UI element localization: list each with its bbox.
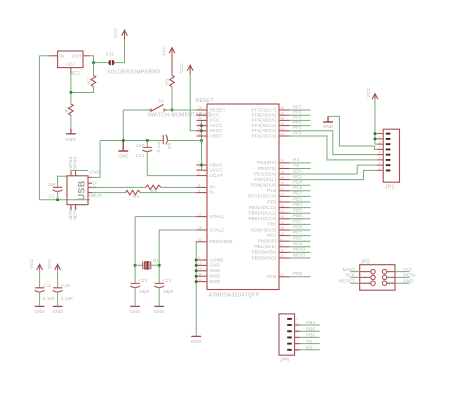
vcc arrow above C10: [55, 264, 61, 270]
svg-text:JP2: JP2: [361, 260, 371, 266]
svg-text:IC1: IC1: [72, 71, 81, 77]
wire C3 to VCC vertical: [168, 140, 202, 142]
svg-text:GND: GND: [403, 278, 414, 283]
IC pin 3 D+: [197, 186, 208, 188]
svg-text:XTAL1: XTAL1: [210, 214, 225, 219]
svg-text:6: 6: [389, 282, 391, 286]
svg-text:C12: C12: [163, 278, 172, 283]
svg-text:8: 8: [281, 237, 283, 241]
node junction at C1 bottom: [56, 198, 59, 201]
svg-text:22: 22: [281, 273, 285, 277]
wire net PB4: [290, 207, 311, 209]
svg-text:PB6: PB6: [293, 213, 302, 218]
wire net PD5: [290, 276, 311, 278]
IC pin 33 PE2/!HWB: [197, 241, 208, 243]
svg-text:PB6(ADC13): PB6(ADC13): [248, 216, 276, 221]
IC pin 1 PE6 net PE6: [279, 201, 290, 203]
svg-text:PB7: PB7: [293, 219, 302, 224]
capacitor C11 plates: [35, 288, 45, 292]
svg-text:PB3(MISO): PB3(MISO): [252, 255, 277, 260]
svg-text:PC7: PC7: [293, 230, 303, 235]
svg-text:SCL: SCL: [293, 174, 303, 179]
svg-text:26: 26: [281, 226, 285, 230]
IC pin 10 PB2(MOSI) net MOSI: [279, 251, 290, 253]
ground symbol C10: [53, 305, 63, 307]
gnd line above USB: [100, 140, 163, 142]
svg-text:MOSI: MOSI: [403, 273, 415, 278]
crystal wires XTAL2: [159, 230, 196, 283]
svg-text:9: 9: [281, 243, 283, 247]
IC pin 42 AREF: [197, 135, 208, 137]
svg-text:XTAL2: XTAL2: [210, 227, 225, 232]
svg-text:8: 8: [379, 167, 381, 171]
svg-text:VCC: VCC: [403, 267, 414, 272]
svg-text:MISO: MISO: [293, 252, 306, 257]
IC pin 34 VCC: [197, 119, 208, 121]
capacitor C10 plates: [53, 288, 63, 292]
svg-text:SOLDERJUMPERNO: SOLDERJUMPERNO: [107, 70, 161, 76]
svg-text:SCK: SCK: [293, 241, 304, 246]
svg-text:36: 36: [281, 106, 285, 110]
JP1 pins 1-8: [377, 130, 390, 171]
resistor R1 lead bottom: [70, 115, 72, 128]
svg-text:RX: RX: [306, 345, 313, 350]
JP2 right wires: [395, 272, 410, 284]
svg-text:0.1uF: 0.1uF: [61, 296, 74, 301]
ground symbol C11: [35, 305, 45, 307]
svg-text:MTN4: MTN4: [72, 156, 77, 169]
wire PE2 to GND rail: [195, 242, 197, 336]
resistor R4: [126, 190, 141, 195]
svg-text:MTN2: MTN2: [72, 206, 77, 219]
wire SDA to JP1 pin7: [290, 165, 378, 174]
wire OUT to corner: [90, 56, 108, 63]
resistor R1 lead top: [70, 93, 72, 105]
IC pin 7 VBUS: [197, 164, 208, 166]
wire ADJ down to junction: [70, 74, 72, 93]
wire VCC down to AVCC row: [190, 74, 201, 130]
node junction JP1 pin2: [374, 137, 377, 140]
IC pin 37 PF6(ADC6) net PF6: [279, 114, 290, 116]
wire VCC to R3: [171, 57, 173, 75]
svg-text:PD7(ADC10): PD7(ADC10): [248, 194, 277, 199]
wire net PD4: [290, 184, 311, 186]
node junction Q1 left: [134, 264, 137, 267]
voltage regulator IC1 body: [58, 51, 83, 68]
capacitor C1 leads: [58, 176, 67, 200]
resistor R2 lead top: [93, 63, 95, 76]
node junctions UGND GND pins: [195, 259, 198, 262]
svg-text:2: 2: [379, 135, 381, 139]
ground symbol below IC: [191, 335, 201, 337]
IC pin 9 PB1(SCK) net SCK: [279, 246, 290, 248]
svg-text:4: 4: [389, 276, 391, 280]
IC pin 22 PD5 net PD5: [279, 276, 290, 278]
svg-text:3: 3: [379, 141, 381, 145]
svg-text:VCC: VCC: [47, 258, 52, 269]
svg-text:3: 3: [198, 184, 200, 188]
svg-text:1: 1: [364, 270, 366, 274]
capacitor C1 plates: [53, 187, 63, 191]
wire shield tie to GND label: [71, 170, 88, 172]
capacitor C10 lead top: [57, 270, 59, 288]
svg-text:C9: C9: [167, 143, 172, 149]
svg-text:4: 4: [198, 189, 200, 193]
svg-text:15: 15: [198, 262, 202, 266]
svg-text:PB4: PB4: [306, 320, 315, 325]
svg-text:AREF: AREF: [210, 133, 223, 138]
vcc arrow top-left: [122, 30, 128, 39]
wire USB GND pin riser: [92, 141, 100, 178]
wire SCL to JP1 pin8: [290, 170, 378, 179]
wire net PB7: [290, 223, 311, 225]
wire net PB5: [290, 212, 311, 214]
node junction R3 reset line: [171, 109, 174, 112]
svg-text:30: 30: [281, 215, 285, 219]
wire PF1 to JP1 pin5: [290, 131, 378, 155]
svg-text:10: 10: [281, 249, 285, 253]
svg-text:PB4: PB4: [293, 202, 302, 207]
svg-text:6: 6: [379, 156, 381, 160]
IC pin 17 XTAL1: [197, 216, 208, 218]
JP2 pads: [360, 269, 395, 285]
svg-text:C14: C14: [136, 153, 145, 158]
capacitor C12 lead bottom: [158, 288, 160, 306]
svg-text:24: 24: [198, 122, 202, 126]
wire net PD6: [290, 229, 311, 231]
IC pin 23 GND: [197, 270, 208, 272]
svg-text:0.1uF: 0.1uF: [43, 296, 56, 301]
capacitor C14 lead bottom to UCAP line: [147, 152, 196, 176]
wire net PD7: [290, 195, 311, 197]
IC pin 4 D-: [197, 192, 208, 194]
node junction ADJ / R1: [69, 91, 72, 94]
IC1 OUT pin stub: [83, 55, 90, 57]
svg-text:PE6: PE6: [267, 199, 276, 204]
node junction VBUS: [200, 164, 203, 167]
svg-text:VBUS: VBUS: [89, 193, 102, 198]
ground symbol below R1: [66, 129, 76, 134]
IC pin 31 PC6 net PC6: [279, 190, 290, 192]
wire net PC6: [290, 190, 311, 192]
wire from IN pin to left vertical: [39, 55, 49, 57]
vcc arrow above R3: [169, 48, 175, 57]
connector JP1 body: [383, 129, 399, 182]
svg-text:PB0(SS): PB0(SS): [258, 239, 277, 244]
svg-text:SJ1: SJ1: [106, 52, 115, 57]
crystal wires XTAL1: [135, 217, 196, 283]
svg-text:4: 4: [379, 146, 381, 150]
svg-text:1uF: 1uF: [136, 143, 144, 148]
IC pin 41 PF0(ADC0) net PF0: [279, 135, 290, 137]
svg-text:JP1: JP1: [385, 185, 395, 191]
vcc arrow above C11: [37, 264, 43, 270]
JP5 pads: [287, 317, 298, 352]
IC pin 18 PD0(SCL) net SCL: [279, 179, 290, 181]
USB shield pin stubs bottom: [71, 205, 76, 210]
svg-text:1: 1: [379, 130, 381, 134]
resistor R2: [91, 75, 96, 86]
ground symbol C13: [130, 305, 140, 307]
svg-text:GND: GND: [52, 309, 63, 314]
IC pin 30 PB6(ADC13) net PB6: [279, 218, 290, 220]
IC pin 44 AVCC: [197, 130, 208, 132]
IC pin 35 GND: [197, 275, 208, 277]
node junction Q1 right: [158, 264, 161, 267]
svg-text:ADJ: ADJ: [66, 62, 75, 67]
svg-text:R1: R1: [64, 106, 69, 112]
svg-text:RESET: RESET: [339, 278, 355, 283]
svg-text:20: 20: [281, 159, 285, 163]
capacitor C12 plates: [154, 283, 164, 287]
resistor R3: [170, 75, 175, 86]
resistor R2 lead bottom and wire to ADJ: [71, 87, 94, 93]
svg-text:R2: R2: [87, 78, 92, 84]
svg-text:PD2(RX): PD2(RX): [257, 160, 277, 165]
svg-text:GND: GND: [210, 268, 221, 273]
svg-text:1uF: 1uF: [48, 182, 56, 187]
wire net TX: [290, 168, 311, 170]
vcc arrow above IC: [187, 65, 193, 74]
svg-text:PD4(ADC8): PD4(ADC8): [251, 183, 277, 188]
svg-text:GND: GND: [65, 137, 76, 142]
IC pin 15 GND: [197, 264, 208, 266]
svg-text:OUT: OUT: [72, 54, 82, 59]
IC pin 40 PF1(ADC1) net PF1: [279, 130, 290, 132]
svg-text:RX: RX: [293, 157, 300, 162]
svg-text:ATMEGA32U4TQFP: ATMEGA32U4TQFP: [209, 293, 260, 299]
IC pin 5 UGND: [197, 259, 208, 261]
svg-text:PC6: PC6: [267, 188, 277, 193]
svg-text:MOSI: MOSI: [293, 247, 305, 252]
svg-text:PB5: PB5: [293, 208, 302, 213]
svg-text:UGND: UGND: [210, 257, 225, 262]
svg-text:S1: S1: [158, 99, 164, 104]
svg-text:PD1(SDA): PD1(SDA): [254, 171, 277, 176]
IC pin 6 UCAP: [197, 175, 208, 177]
IC pin 27 PD7(ADC10) net PD7: [279, 195, 290, 197]
solder jumper SJ1: [108, 60, 111, 65]
svg-text:1: 1: [296, 317, 298, 321]
svg-text:GND: GND: [130, 309, 141, 314]
svg-text:VCC: VCC: [29, 258, 34, 269]
svg-text:C11: C11: [43, 283, 52, 288]
capacitor C11 lead top: [39, 270, 41, 288]
IC pin 43 GND: [197, 281, 208, 283]
wire bottom run to USB: [39, 199, 90, 201]
svg-text:GND: GND: [323, 124, 334, 129]
svg-text:35: 35: [198, 272, 202, 276]
svg-text:11: 11: [281, 254, 285, 258]
svg-text:23: 23: [198, 267, 202, 271]
svg-text:33: 33: [198, 238, 202, 242]
svg-text:PD5: PD5: [293, 271, 303, 276]
node junction gnd symbol: [122, 139, 125, 142]
svg-text:VCC: VCC: [366, 87, 371, 98]
wire net MOSI: [290, 251, 311, 253]
svg-text:GND: GND: [210, 274, 221, 279]
svg-text:18: 18: [281, 176, 285, 180]
vcc arrow above JP1: [372, 94, 378, 100]
JP5 pin stubs: [295, 325, 300, 350]
svg-text:PB4(ADC11): PB4(ADC11): [249, 205, 277, 210]
svg-text:UCAP: UCAP: [210, 173, 223, 178]
svg-text:C1: C1: [49, 194, 55, 199]
svg-text:GND: GND: [34, 309, 45, 314]
svg-text:38: 38: [281, 117, 285, 121]
svg-text:PD6: PD6: [293, 224, 303, 229]
svg-text:MISO: MISO: [343, 267, 356, 272]
svg-text:C13: C13: [139, 278, 148, 283]
svg-text:40: 40: [281, 127, 285, 131]
svg-text:VCC: VCC: [113, 27, 118, 38]
capacitor C10 lead bottom: [57, 292, 59, 306]
wire net PE6: [290, 201, 311, 203]
svg-text:GND: GND: [89, 169, 100, 174]
IC pin 36 PF7(ADC7) net PF7: [279, 109, 290, 111]
svg-text:0.1uF: 0.1uF: [156, 140, 161, 153]
IC pin 16 XTAL2: [197, 229, 208, 231]
svg-text:C10: C10: [61, 283, 70, 288]
IC pin 8 PB0(SS) net PB0: [279, 240, 290, 242]
svg-text:34: 34: [198, 117, 202, 121]
svg-text:PD5: PD5: [267, 274, 277, 279]
svg-text:3: 3: [364, 276, 366, 280]
capacitor C13 plates: [130, 283, 140, 287]
svg-text:PF0(ADC0): PF0(ADC0): [251, 133, 276, 138]
resistor R1: [69, 104, 74, 115]
svg-text:43: 43: [198, 278, 202, 282]
wire net PF4: [290, 125, 311, 127]
svg-text:PC7: PC7: [267, 233, 277, 238]
svg-text:Q1: Q1: [153, 258, 160, 263]
svg-text:14: 14: [198, 111, 202, 115]
svg-text:PD6(ADC9): PD6(ADC9): [251, 227, 277, 232]
svg-text:PD4: PD4: [293, 180, 303, 185]
svg-text:SDA: SDA: [293, 168, 304, 173]
svg-text:PB1(SCK): PB1(SCK): [254, 244, 277, 249]
svg-text:TX: TX: [306, 339, 312, 344]
op-amp U1 : main IC ATMEGA32U4 body: [207, 104, 279, 290]
ground symbol on gnd line: [118, 141, 128, 152]
svg-text:VCC: VCC: [179, 62, 184, 73]
svg-text:GND: GND: [210, 263, 221, 268]
svg-text:VCC: VCC: [162, 45, 167, 56]
capacitor C13 lead bottom: [134, 288, 136, 306]
svg-text:42: 42: [198, 132, 202, 136]
svg-text:25: 25: [281, 181, 285, 185]
wire net PC7: [290, 235, 311, 237]
svg-text:SCK: SCK: [345, 273, 356, 278]
svg-text:17: 17: [198, 213, 202, 217]
ground symbol C12: [154, 305, 164, 307]
svg-text:PB7: PB7: [267, 222, 276, 227]
IC pin 13 RESET: [197, 109, 208, 111]
IC pin 38 PF5(ADC5) net PF5: [279, 119, 290, 121]
wire VCC bus to JP1 pins 1-3: [375, 99, 377, 144]
IC pin 12 PB7 net PB7: [279, 223, 290, 225]
svg-text:GND: GND: [191, 339, 202, 344]
wire S1 to RESET pin: [167, 109, 197, 111]
svg-text:39: 39: [281, 122, 285, 126]
wire SJ1 to VCC arrow: [115, 40, 125, 63]
IC pin 20 PD2(RXD1) net RX: [279, 162, 290, 164]
wire net PB6: [290, 218, 311, 220]
svg-text:RESET: RESET: [196, 98, 214, 104]
IC pin 19 PD1(SDA) net SDA: [279, 173, 290, 175]
svg-text:PE2/!HWB: PE2/!HWB: [210, 239, 233, 244]
crystal Q1: [143, 262, 151, 270]
svg-text:GND: GND: [154, 309, 165, 314]
wire D- line: [92, 192, 197, 194]
svg-text:31: 31: [281, 187, 285, 191]
svg-text:PB0: PB0: [293, 236, 302, 241]
svg-text:GND: GND: [210, 279, 221, 284]
svg-text:2: 2: [198, 166, 200, 170]
svg-text:5: 5: [379, 151, 381, 155]
capacitor C14 lead top: [146, 141, 148, 148]
IC pin 24 AVCC: [197, 125, 208, 127]
svg-text:7: 7: [198, 161, 200, 165]
svg-text:D-: D-: [210, 190, 215, 195]
svg-text:PD0(SCL): PD0(SCL): [254, 177, 276, 182]
svg-text:PB2(MOSI): PB2(MOSI): [252, 250, 277, 255]
wire net RX: [290, 162, 311, 164]
svg-text:GND: GND: [118, 154, 129, 159]
switch S1: [149, 105, 168, 112]
USB connector body: [67, 176, 88, 205]
svg-text:37: 37: [281, 111, 285, 115]
svg-text:12: 12: [281, 221, 285, 225]
svg-text:PE6: PE6: [293, 196, 302, 201]
svg-text:2: 2: [389, 270, 391, 274]
svg-text:27: 27: [281, 193, 285, 197]
USB shield pin stubs top: [71, 171, 76, 176]
svg-text:29: 29: [281, 209, 285, 213]
resistor R5: [146, 185, 161, 190]
wire GND to JP1 pin4: [328, 116, 377, 149]
wire PF0 to JP1 pin6: [290, 136, 378, 160]
wire D+ line: [92, 186, 197, 188]
svg-text:28: 28: [281, 204, 285, 208]
IC pin 21 PD3(TXD1) net TX: [279, 168, 290, 170]
connector JP2 body: [360, 265, 395, 291]
svg-text:1: 1: [281, 198, 283, 202]
switch S1 wire from GND riser: [123, 109, 148, 111]
wire crystal row: [135, 264, 159, 266]
capacitor C11 lead bottom: [39, 292, 41, 306]
capacitor C9 plates: [163, 135, 167, 145]
svg-text:41: 41: [281, 132, 285, 136]
svg-text:USB: USB: [77, 180, 87, 200]
svg-text:R4: R4: [133, 194, 139, 199]
svg-text:IN: IN: [60, 54, 65, 59]
IC pin 32 PC7 net PC7: [279, 235, 290, 237]
wire net PB0: [290, 240, 311, 242]
IC pin 39 PF4(ADC4) net PF4: [279, 125, 290, 127]
capacitor C14 plates: [142, 147, 152, 151]
USB right pin stubs: [88, 177, 92, 192]
wire long left vertical: [38, 56, 40, 200]
svg-text:PB5(ADC12): PB5(ADC12): [248, 211, 276, 216]
IC pin 26 PD6(ADC9) net PD6: [279, 229, 290, 231]
IC pin 2 UVCC: [197, 169, 208, 171]
svg-text:6: 6: [198, 172, 200, 176]
IC1 ADJ pin stub: [70, 68, 72, 74]
svg-text:5: 5: [198, 256, 200, 260]
svg-text:JP5: JP5: [280, 358, 290, 364]
svg-text:UVCC: UVCC: [210, 168, 224, 173]
